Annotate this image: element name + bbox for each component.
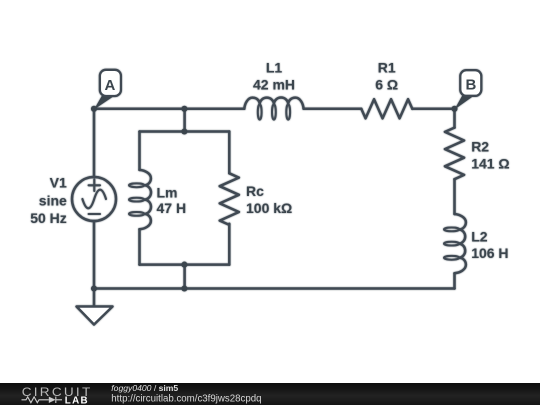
svg-text:LAB: LAB [65,396,89,405]
svg-text:foggy0400 / sim5: foggy0400 / sim5 [111,383,178,393]
svg-text:http://circuitlab.com/c3f9jws2: http://circuitlab.com/c3f9jws28cpdq [111,393,261,404]
